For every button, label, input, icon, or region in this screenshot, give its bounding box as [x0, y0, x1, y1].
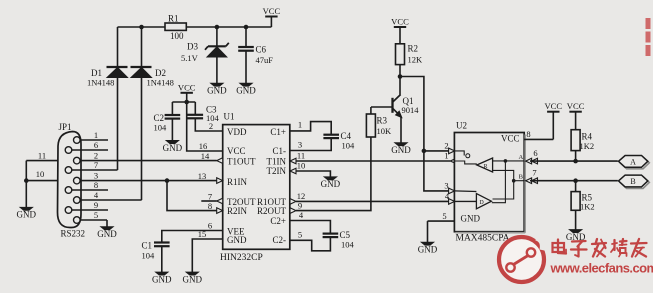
svg-text:VCC: VCC: [263, 6, 281, 16]
JP1 pin 8 circle and stub: [65, 180, 108, 193]
JP1 pin 3 circle: [74, 171, 99, 184]
wire U1 T2IN to ground: [290, 168, 330, 177]
svg-text:VCC: VCC: [227, 146, 246, 156]
ground GND Q1 emitter: [391, 143, 411, 155]
svg-text:1K2: 1K2: [580, 202, 595, 212]
U1 label R1OUT: [257, 197, 287, 207]
svg-text:JP1: JP1: [59, 122, 72, 132]
U1 label T1IN: [267, 157, 287, 167]
pin 16 label U1 VCC: [199, 141, 208, 151]
pin 7 stub and arrow U1 T2OUT: [201, 198, 222, 204]
pin 11 label U1 T1IN: [297, 151, 305, 161]
svg-text:13: 13: [198, 171, 207, 181]
wire internal B to pin: [514, 154, 525, 181]
pin 14 label U1 T1OUT: [201, 151, 210, 161]
U1 label VEE: [227, 226, 245, 236]
pin 1 arrow U2 RO: [444, 151, 456, 164]
JP1 pin 7 circle and wire to D1: [65, 160, 117, 173]
wire U1 C2minus jog to C5: [290, 237, 330, 251]
wire U2 internal A net: [493, 160, 525, 162]
svg-text:6: 6: [208, 221, 212, 231]
U1 label T2OUT: [227, 197, 256, 207]
U1 label GND pin15: [227, 235, 247, 245]
svg-text:GND: GND: [418, 245, 438, 255]
capacitor C5 104: [290, 221, 355, 250]
op-amp U1 HIN232CP body: [220, 112, 290, 264]
svg-text:11: 11: [297, 151, 305, 161]
pin 7 wire U2 B: [526, 167, 618, 183]
svg-text:B: B: [630, 177, 635, 186]
svg-text:C1: C1: [142, 241, 153, 251]
power VCC left of R4: [544, 101, 562, 139]
JP1 pin 2 circle: [74, 151, 99, 164]
svg-text:A: A: [518, 154, 523, 161]
buffer D driver gate: [476, 194, 491, 209]
svg-text:C2: C2: [154, 113, 165, 123]
resistor R4 1K2: [571, 130, 594, 151]
svg-text:10: 10: [297, 161, 306, 171]
wire VCC to U1 pin16: [187, 102, 223, 151]
svg-text:R2: R2: [408, 44, 419, 54]
op-amp U2 MAX485CPA body: [454, 121, 525, 244]
node junction internal A: [504, 159, 508, 163]
node junction B R5: [573, 178, 578, 183]
pin 3 label U1 C1minus: [298, 140, 302, 150]
svg-text:104: 104: [341, 240, 355, 250]
svg-text:2: 2: [444, 140, 448, 150]
svg-text:R2IN: R2IN: [227, 206, 248, 216]
resistor R1: [165, 14, 186, 42]
pin 15 label U1 GND: [198, 229, 207, 239]
pin 9 arrow U1 R2OUT: [290, 208, 296, 214]
wire U2 RO internal: [454, 161, 476, 164]
svg-text:16: 16: [199, 141, 208, 151]
node junction D3-rail: [215, 25, 220, 30]
JP1 pin 5 circle and wire to ground: [74, 210, 108, 228]
ground GND JP1 pin5: [97, 227, 117, 239]
ground GND under T2IN: [321, 177, 341, 189]
wire U2 DE internal: [454, 190, 476, 193]
svg-text:C5: C5: [340, 230, 351, 240]
svg-text:T2IN: T2IN: [267, 166, 287, 176]
svg-text:7: 7: [94, 160, 98, 170]
svg-text:GND: GND: [227, 235, 247, 245]
svg-text:R3: R3: [377, 116, 388, 126]
svg-text:6: 6: [533, 148, 537, 158]
pin 2 label U1 VDD: [209, 121, 213, 131]
ground GND under R5: [566, 230, 586, 242]
svg-text:U2: U2: [456, 121, 467, 131]
ground GND JP1 shell: [17, 207, 37, 219]
svg-text:D: D: [479, 200, 484, 206]
svg-text:8: 8: [94, 180, 98, 190]
ground GND U2 pin5: [418, 242, 438, 254]
svg-text:VCC: VCC: [178, 82, 196, 92]
svg-text:1K2: 1K2: [580, 141, 595, 151]
svg-text:U1: U1: [224, 112, 235, 122]
zener diode D3 5.1V: [181, 27, 229, 84]
ground GND U1 pin15: [183, 272, 203, 284]
wire R2 to Q1 collector node: [399, 65, 401, 77]
svg-text:VCC: VCC: [391, 17, 409, 27]
wire U1 T1IN to U2 RO pin1: [296, 160, 450, 162]
U1 label VCC pin16: [227, 146, 246, 156]
connector flag B: [619, 175, 650, 188]
svg-text:B: B: [519, 174, 524, 181]
svg-text:R1IN: R1IN: [227, 177, 248, 187]
U1 label R2OUT: [257, 206, 287, 216]
svg-text:11: 11: [38, 150, 46, 160]
svg-text:C2-: C2-: [273, 235, 287, 245]
wire VCC distribution rail: [172, 101, 195, 103]
svg-text:VCC: VCC: [501, 134, 520, 144]
svg-text:8: 8: [526, 129, 530, 139]
svg-text:104: 104: [154, 123, 168, 133]
svg-text:5: 5: [442, 211, 446, 221]
connector flag A: [619, 156, 650, 169]
wire R4 to A line: [575, 151, 577, 162]
pin 6 wire U2 A: [526, 148, 618, 164]
wire top rail left segment: [118, 26, 166, 28]
wire U2 RE internal: [454, 151, 469, 158]
svg-text:VDD: VDD: [227, 127, 247, 137]
pin 8 wire U2 VCC: [524, 129, 553, 139]
pin 12 label U1 R1OUT: [297, 191, 306, 201]
node junction R1IN R2IN split: [165, 178, 170, 183]
pin 10 label U1 T2IN: [297, 161, 306, 171]
wire JP1 pin3 to U1 R1IN: [80, 180, 217, 182]
svg-text:7: 7: [208, 191, 212, 201]
JP1 pin 1 circle and wire: [74, 130, 109, 143]
pin 13 label U1 R1IN: [198, 171, 207, 181]
svg-text:GND: GND: [183, 274, 203, 284]
U1 label T1OUT: [227, 157, 256, 167]
svg-text:GND: GND: [236, 86, 256, 96]
resistor R3 10K: [366, 107, 392, 137]
svg-text:104: 104: [342, 140, 356, 150]
svg-text:D1: D1: [91, 68, 102, 78]
svg-text:R: R: [483, 164, 487, 170]
pin 11 arrow U1 T1IN: [290, 158, 296, 164]
svg-text:HIN232CP: HIN232CP: [220, 253, 263, 263]
svg-text:RS232: RS232: [61, 229, 86, 239]
pin 13 arrow U1 R1IN: [217, 178, 223, 184]
node junction VCC rail: [184, 100, 189, 105]
power VCC above R4: [567, 101, 585, 130]
pin 5 label U1 C2minus: [298, 230, 302, 240]
JP1 pin 9 circle and stub: [65, 200, 108, 213]
svg-text:T1IN: T1IN: [267, 157, 287, 167]
U1 label R2IN: [227, 206, 248, 216]
U1 label C2plus: [270, 216, 286, 226]
capacitor C4 104: [290, 122, 355, 151]
wire JP1 pin4 corner up to D2 anode: [141, 199, 143, 201]
buffer R receiver gate: [477, 158, 493, 172]
node junction C6-rail: [244, 25, 249, 30]
svg-text:1N4148: 1N4148: [87, 78, 114, 88]
svg-text:100: 100: [170, 31, 184, 41]
svg-text:8: 8: [208, 201, 212, 211]
svg-text:1N4148: 1N4148: [147, 78, 174, 88]
svg-text:14: 14: [201, 151, 210, 161]
pin 4 label U1 C2plus: [299, 210, 304, 220]
ground GND under C2: [163, 141, 183, 153]
svg-text:D2: D2: [155, 68, 166, 78]
capacitor C3 104: [188, 102, 223, 131]
connector JP1 DB9 body: [57, 122, 85, 239]
svg-text:T1OUT: T1OUT: [227, 157, 256, 167]
svg-text:3: 3: [444, 180, 448, 190]
U1 label VDD: [227, 127, 247, 137]
U1 label C1plus: [270, 127, 286, 137]
svg-text:GND: GND: [321, 179, 341, 189]
wire JP1 shell 10: [26, 169, 57, 181]
pin 7 label U1 T2OUT: [208, 191, 212, 201]
svg-text:2: 2: [209, 121, 213, 131]
svg-text:C2+: C2+: [270, 216, 286, 226]
wire JP1 shell 11: [26, 150, 57, 160]
capacitor C6 47uF: [238, 27, 273, 84]
ground GND under C6: [236, 83, 256, 95]
diode D1 1N4148: [87, 27, 128, 170]
wire JP1 pin2 to U1 T1OUT: [80, 160, 217, 162]
transistor Q1 9014: [371, 77, 419, 144]
node junction Q1 collector: [398, 74, 403, 79]
resistor R2 12K: [396, 44, 424, 65]
U1 label T2IN: [267, 166, 287, 176]
power VCC above C2 C3: [178, 82, 196, 102]
svg-text:VCC: VCC: [544, 101, 562, 111]
svg-text:GND: GND: [17, 210, 37, 220]
svg-text:3: 3: [298, 140, 302, 150]
capacitor C1 104: [142, 231, 223, 273]
svg-text:www.elecfans.com: www.elecfans.com: [550, 261, 653, 276]
svg-text:5: 5: [94, 210, 98, 220]
wire U1 GND pin15 to ground: [192, 239, 222, 273]
power VCC above R2: [391, 17, 409, 44]
capacitor C2 104: [154, 102, 181, 141]
wire control to U2 pin2: [424, 150, 449, 152]
svg-text:R1: R1: [168, 14, 179, 24]
svg-text:10K: 10K: [377, 126, 393, 136]
pin 4 arrow U2 DI: [445, 191, 455, 204]
pin 8 arrow U1 R2IN: [217, 208, 223, 214]
wire R5 to ground: [575, 210, 577, 230]
svg-text:VCC: VCC: [567, 101, 585, 111]
JP1 pin 4 circle and wire to D2: [74, 190, 142, 203]
svg-text:1: 1: [94, 130, 98, 140]
svg-text:GND: GND: [163, 143, 183, 153]
svg-text:9014: 9014: [402, 105, 420, 115]
svg-text:C6: C6: [256, 45, 267, 55]
wire Q1 collector to U2 control: [400, 77, 424, 151]
node junction D2-rail: [139, 25, 144, 30]
wire branch to U1 R2IN: [167, 181, 217, 211]
wire U1 R2OUT to R3: [296, 137, 371, 211]
wire U2 driver output to A: [492, 161, 506, 203]
JP1 pin 6 circle and wire: [65, 140, 108, 153]
svg-text:6: 6: [94, 140, 98, 150]
pin 6 label U1 VEE: [208, 221, 212, 231]
pin 14 arrow U1 T1OUT: [217, 158, 223, 164]
pin 5 wire U2 GND: [428, 211, 455, 243]
svg-text:5.1V: 5.1V: [181, 53, 199, 63]
wire control down to U2 pin3: [424, 151, 449, 191]
ground GND under C1: [152, 272, 172, 284]
resistor R5 1K2: [571, 181, 595, 212]
node junction A R4: [573, 159, 578, 164]
svg-text:10: 10: [36, 169, 45, 179]
watermark chinese text: [553, 239, 647, 257]
svg-text:D3: D3: [187, 42, 198, 52]
svg-text:12K: 12K: [408, 55, 424, 65]
U1 label C2minus: [273, 235, 287, 245]
svg-text:47uF: 47uF: [256, 55, 274, 65]
svg-text:GND: GND: [97, 229, 117, 239]
svg-text:1: 1: [298, 120, 302, 130]
svg-text:C1-: C1-: [273, 146, 287, 156]
svg-text:A: A: [630, 157, 636, 166]
pin 2 arrow U2 RE: [444, 140, 454, 153]
pin 3 arrow U2 DE: [444, 180, 454, 193]
pin 8 label U1 R2IN: [208, 201, 212, 211]
svg-text:9: 9: [94, 200, 98, 210]
pin 12 arrow U1 R1OUT: [290, 199, 296, 205]
svg-text:GND: GND: [461, 214, 481, 224]
svg-text:104: 104: [142, 251, 156, 261]
node junction internal B: [512, 179, 516, 183]
U1 label R1IN: [227, 177, 248, 187]
wire U2 DI internal: [454, 200, 476, 202]
wire top rail right segment: [186, 26, 271, 28]
node junction shell ground: [24, 178, 29, 183]
ground GND under D3: [207, 83, 227, 95]
U1 label C1minus: [273, 146, 287, 156]
wire U1 R1OUT to U2 DI pin4: [296, 200, 449, 202]
pin 1 label U1 C1plus: [298, 120, 302, 130]
svg-text:MAX485CPA: MAX485CPA: [456, 234, 510, 244]
svg-text:7: 7: [532, 167, 536, 177]
watermark vertical red strip top right: [646, 18, 651, 56]
pin 9 label U1 R2OUT: [298, 200, 302, 210]
node junction U2 RE DE tie: [422, 149, 427, 154]
power VCC top: [263, 6, 281, 27]
watermark url text: [550, 261, 653, 276]
svg-text:GND: GND: [152, 274, 172, 284]
svg-text:GND: GND: [391, 145, 411, 155]
diode D2 1N4148: [131, 27, 174, 200]
watermark logo circle: [499, 237, 544, 282]
wire shell ground vertical: [25, 161, 27, 209]
svg-text:GND: GND: [207, 86, 227, 96]
svg-text:R2OUT: R2OUT: [257, 206, 287, 216]
svg-text:5: 5: [298, 230, 302, 240]
svg-text:C1+: C1+: [270, 127, 286, 137]
wire U2 internal B net: [493, 170, 514, 199]
svg-text:1: 1: [444, 151, 448, 161]
